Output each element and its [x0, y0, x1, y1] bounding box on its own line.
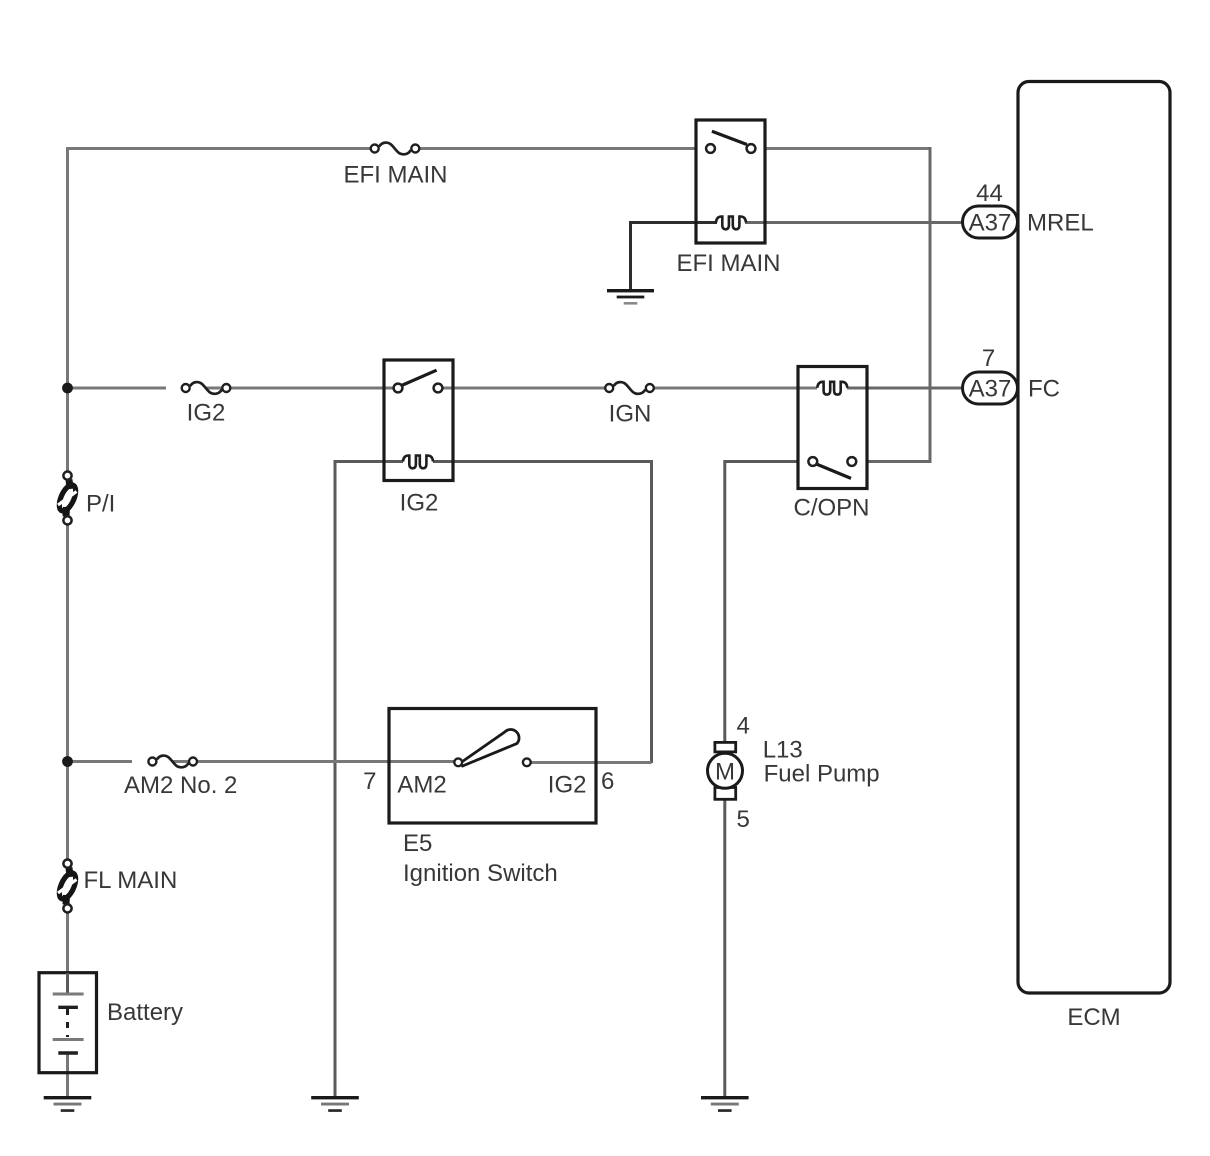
fuse IGN: [605, 382, 654, 394]
fuse EFI MAIN: [371, 143, 420, 155]
wire: IG2 relay coil left to center vertical: [335, 462, 403, 1099]
svg-text:IG2: IG2: [187, 400, 226, 427]
wire: battery column P/I to FL MAIN: [66, 524, 69, 860]
wire: IG2 fuse to IG2 relay: [206, 387, 399, 390]
wire: battery to ground: [66, 1053, 69, 1098]
wire: IG2 relay coil right to riser: [433, 462, 652, 764]
node: junction battery column / IG2 row: [62, 383, 73, 394]
svg-text:44: 44: [976, 180, 1003, 207]
fuse AM2 No. 2: [148, 756, 197, 768]
svg-text:A37: A37: [969, 210, 1012, 237]
svg-text:7: 7: [982, 345, 995, 372]
relay C/OPN: [798, 367, 867, 489]
relay IG2: [384, 360, 453, 481]
svg-text:EFI MAIN: EFI MAIN: [676, 250, 780, 277]
svg-text:AM2: AM2: [397, 772, 446, 799]
svg-text:IG2: IG2: [548, 772, 587, 799]
fuse IG2: [182, 382, 231, 394]
svg-text:Fuel Pump: Fuel Pump: [764, 761, 880, 788]
wire: top feed from battery column to EFI MAIN fuse: [68, 149, 371, 476]
svg-text:L13: L13: [763, 737, 803, 764]
svg-text:4: 4: [737, 713, 750, 740]
wire: fuel pump feed from C/OPN switch: [725, 462, 798, 744]
svg-text:5: 5: [737, 806, 750, 833]
svg-text:AM2 No. 2: AM2 No. 2: [124, 772, 237, 799]
svg-text:7: 7: [363, 768, 376, 795]
fusible link FL MAIN: [56, 860, 79, 913]
svg-text:6: 6: [601, 768, 614, 795]
node: junction battery column / AM2 row: [62, 756, 73, 767]
wire: ground stub to EFI MAIN relay coil: [631, 223, 718, 290]
wire: EFI MAIN relay coil to A37 pin 44: [745, 221, 963, 224]
wire: C/OPN coil to A37 pin 7: [847, 387, 963, 390]
wire: EFI MAIN fuse to EFI MAIN relay: [420, 147, 697, 150]
wire: E5 IG2 terminal to riser: [530, 761, 652, 764]
svg-text:C/OPN: C/OPN: [793, 495, 869, 522]
wire: FL MAIN to battery: [66, 912, 69, 993]
battery: [39, 973, 97, 1073]
wire: AM2 row from battery column to AM2 fuse: [68, 760, 133, 763]
svg-text:ECM: ECM: [1067, 1004, 1120, 1031]
wire: IGN fuse to C/OPN coil: [650, 387, 817, 390]
ground: fuel pump: [701, 1096, 749, 1112]
wire: right vertical down to C/OPN switch: [867, 147, 930, 462]
svg-text:IGN: IGN: [609, 401, 652, 428]
svg-text:Ignition Switch: Ignition Switch: [403, 860, 558, 887]
svg-text:M: M: [715, 759, 735, 786]
ignition switch E5: [389, 709, 596, 824]
connector A37 pin 7 FC: [963, 372, 1018, 404]
connector A37 pin 44 MREL: [963, 206, 1018, 238]
svg-text:E5: E5: [403, 830, 432, 857]
svg-text:FL MAIN: FL MAIN: [84, 867, 178, 894]
ECM box: [1018, 82, 1170, 994]
motor L13 fuel pump: [708, 742, 743, 799]
wire: EFI MAIN relay switch to right vertical: [764, 147, 930, 150]
svg-text:EFI MAIN: EFI MAIN: [343, 162, 447, 189]
ground: battery: [44, 1096, 92, 1112]
svg-text:FC: FC: [1028, 376, 1060, 403]
ground: IG2 relay coil column: [311, 1096, 359, 1112]
fusible link P/I: [56, 472, 79, 525]
svg-text:A37: A37: [969, 376, 1012, 403]
svg-text:P/I: P/I: [86, 491, 115, 518]
wire: fuel pump to ground: [723, 799, 726, 1098]
wire: IG2 relay switch to IGN fuse: [437, 387, 609, 390]
wire: IG2 row left segment: [68, 387, 167, 390]
svg-text:Battery: Battery: [107, 999, 183, 1026]
svg-text:IG2: IG2: [400, 490, 439, 517]
ground: EFI MAIN relay coil: [607, 289, 654, 305]
relay EFI MAIN: [696, 120, 765, 243]
wire: AM2 fuse to E5 AM2 terminal: [173, 760, 455, 763]
svg-text:MREL: MREL: [1027, 210, 1094, 237]
